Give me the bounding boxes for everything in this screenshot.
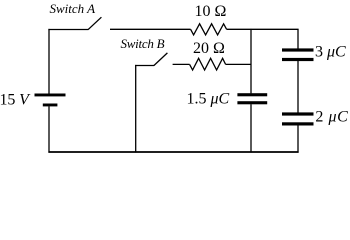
svg-text:20 Ω: 20 Ω: [193, 40, 225, 57]
capacitor C3 2uC bottom plate: [282, 122, 314, 125]
capacitor C1 3uC bottom plate: [282, 58, 314, 61]
wire right vertical middle: [297, 61, 299, 113]
svg-text:10 Ω: 10 Ω: [195, 3, 227, 20]
capacitor C2 1.5uC top plate: [237, 93, 267, 96]
resistor R2 20 ohm zigzag: [190, 58, 226, 70]
wire right vertical lower: [297, 125, 299, 152]
battery V1 short plate: [43, 104, 58, 107]
capacitor C3 2uC top plate: [282, 112, 314, 115]
wire right vertical upper: [297, 29, 299, 48]
svg-text:Switch A: Switch A: [50, 1, 96, 16]
capacitor C2 1.5uC bottom plate: [237, 101, 267, 104]
wire top middle: [110, 28, 191, 30]
wire top right: [227, 28, 299, 30]
wire middle vertical lower: [250, 104, 252, 152]
svg-text:15 V: 15 V: [0, 91, 31, 108]
wire bottom: [48, 151, 298, 153]
svg-text:Switch B: Switch B: [121, 36, 165, 51]
svg-text:2 μC: 2 μC: [315, 108, 348, 125]
switch A blade: [88, 17, 101, 30]
capacitor C1 3uC top plate: [282, 48, 314, 51]
wire left vertical top: [48, 29, 50, 94]
resistor R1 10 ohm zigzag: [191, 24, 227, 35]
svg-text:3 μC: 3 μC: [315, 43, 346, 60]
wire middle vertical upper: [250, 29, 252, 94]
wire switch B stub: [135, 65, 154, 67]
wire 20 ohm left lead: [173, 63, 190, 65]
wire left vertical bottom: [48, 106, 50, 152]
switch B blade: [154, 53, 168, 66]
svg-text:1.5 μC: 1.5 μC: [187, 91, 230, 108]
battery V1 long plate: [35, 94, 66, 97]
wire top left horizontal: [48, 29, 88, 31]
wire switch B branch vertical: [135, 65, 137, 153]
wire 20 ohm right lead: [226, 63, 252, 65]
